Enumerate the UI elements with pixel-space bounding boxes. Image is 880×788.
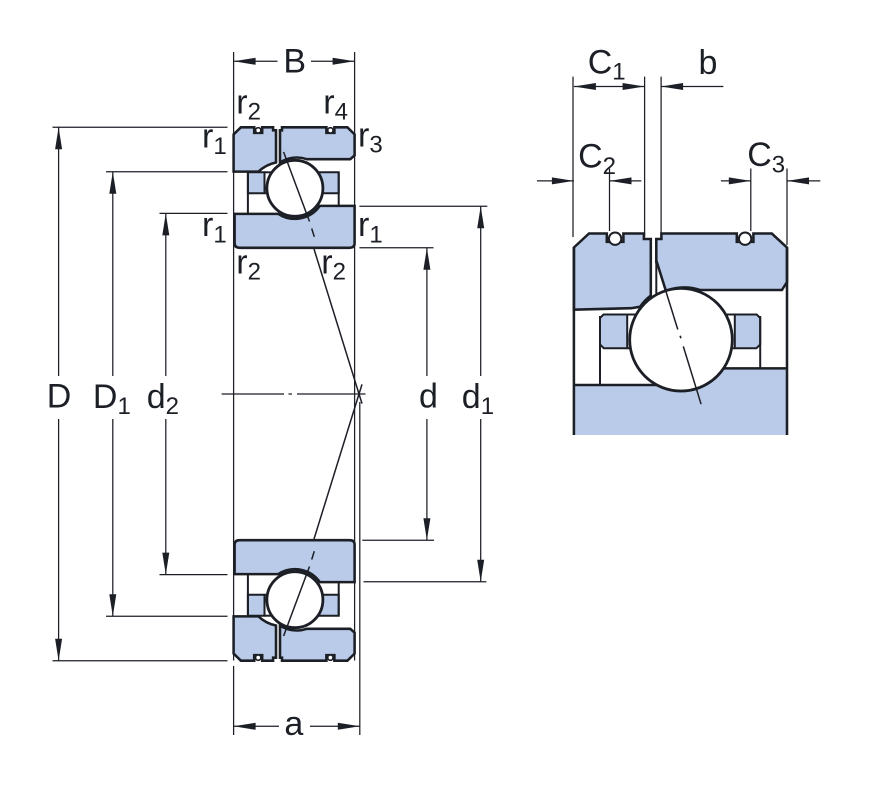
svg-text:b: b (698, 44, 717, 82)
svg-text:D: D (47, 378, 72, 416)
svg-text:a: a (284, 705, 303, 743)
svg-text:B: B (283, 43, 306, 81)
svg-text:d: d (419, 378, 438, 416)
